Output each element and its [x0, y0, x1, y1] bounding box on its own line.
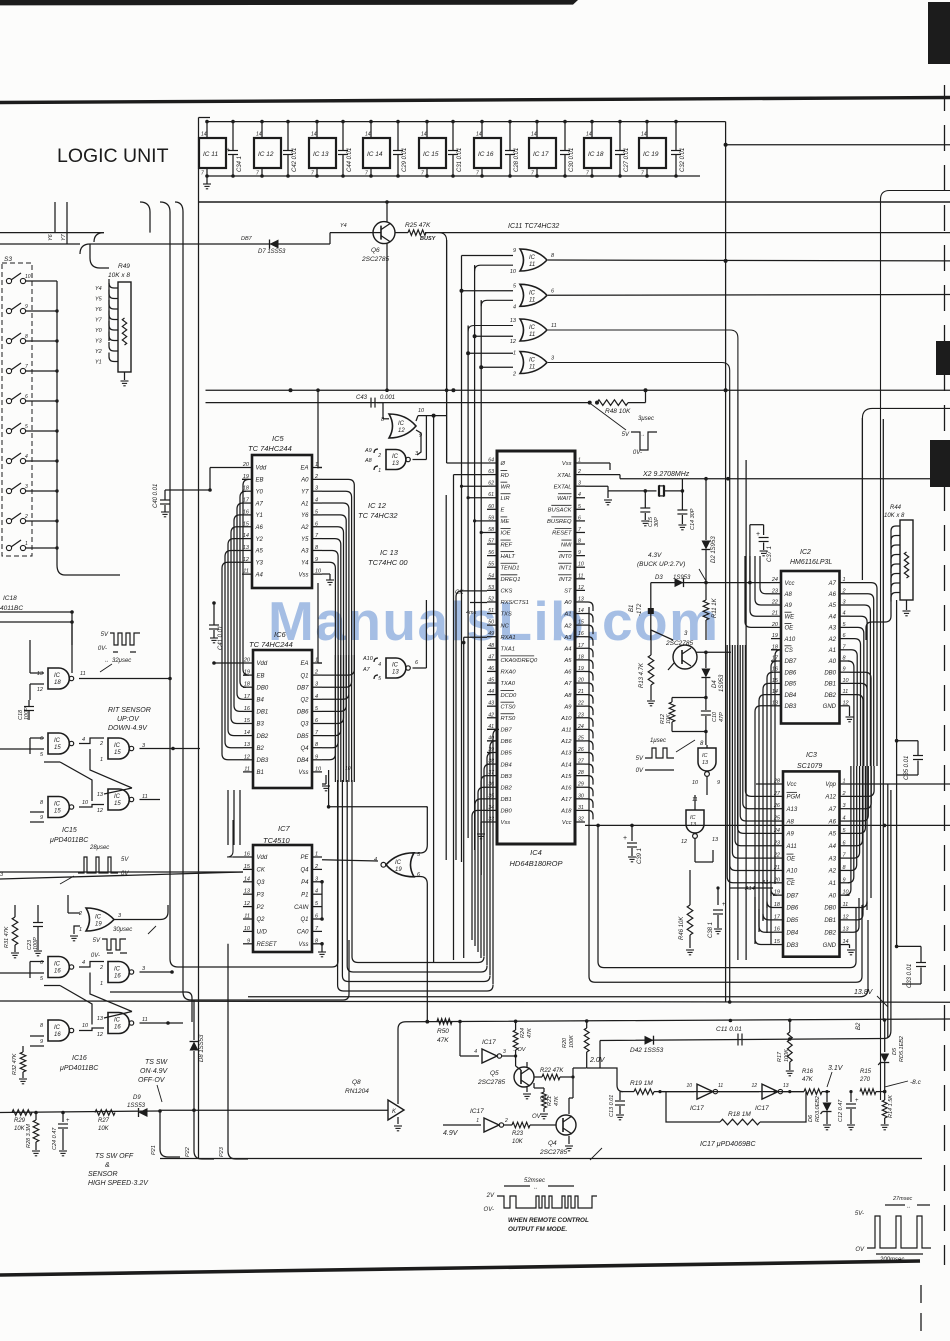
svg-text:30P: 30P	[654, 517, 660, 527]
switch S3-9	[6, 308, 11, 313]
svg-text:PE: PE	[300, 855, 309, 861]
svg-text:13: 13	[690, 822, 697, 828]
svg-text:Y7: Y7	[61, 233, 67, 241]
svg-text:16: 16	[244, 706, 251, 712]
svg-text:2: 2	[314, 864, 318, 870]
svg-text:A12: A12	[824, 795, 836, 801]
svg-text:NMI: NMI	[561, 542, 572, 548]
svg-text:4: 4	[82, 737, 85, 743]
wire IC2 Vcc lead	[770, 582, 772, 584]
wire IC15 out3	[140, 748, 201, 750]
svg-text:47K: 47K	[527, 1028, 533, 1038]
or-gate IC12	[389, 414, 416, 438]
resistor R24 47K	[515, 1021, 517, 1030]
svg-text:C30 0.01: C30 0.01	[569, 148, 575, 172]
svg-text:A8: A8	[563, 693, 572, 699]
svg-text:D2 1S953: D2 1S953	[711, 536, 717, 563]
svg-text:B1: B1	[257, 770, 264, 776]
svg-text:A10: A10	[786, 869, 798, 875]
svg-text:28: 28	[773, 779, 781, 785]
svg-text:R48 10K: R48 10K	[605, 408, 631, 415]
svg-text:OE: OE	[787, 856, 797, 862]
svg-text:A11: A11	[786, 844, 797, 850]
svg-text:XTAL: XTAL	[556, 473, 571, 479]
svg-text:IC: IC	[114, 743, 121, 749]
capacitor C15 30P	[644, 491, 646, 508]
wire busy drop x446	[430, 233, 447, 460]
svg-text:IC: IC	[54, 1025, 61, 1031]
wire IC7 left stubs	[233, 856, 243, 858]
switch S3-8	[6, 338, 11, 343]
svg-text:9: 9	[315, 557, 318, 563]
svg-text:IC: IC	[529, 255, 536, 261]
svg-text:20: 20	[243, 658, 251, 664]
svg-text:IC: IC	[54, 738, 61, 744]
resistor R14 1.5K	[884, 1092, 886, 1100]
svg-text:Vdd: Vdd	[256, 466, 267, 472]
svg-text:11: 11	[529, 297, 535, 303]
svg-text:DB2: DB2	[824, 930, 836, 936]
nand IC18	[48, 668, 69, 689]
diode D4 1S953	[705, 652, 707, 668]
svg-text:13: 13	[843, 927, 850, 933]
svg-text:6: 6	[415, 660, 419, 666]
svg-text:A14: A14	[761, 880, 772, 886]
svg-text:Q1: Q1	[300, 917, 308, 923]
svg-text:IC 18: IC 18	[588, 151, 604, 158]
capacitor C38 1	[717, 888, 719, 905]
svg-text:A3: A3	[828, 856, 837, 862]
svg-text:CA0: CA0	[297, 930, 309, 936]
svg-text:0V: 0V	[636, 768, 644, 774]
svg-text:DB2: DB2	[257, 734, 269, 740]
svg-text:2: 2	[78, 911, 82, 917]
svg-text:53: 53	[488, 585, 494, 591]
svg-text:IC5: IC5	[272, 434, 285, 443]
svg-text:55: 55	[488, 562, 494, 568]
svg-text:26: 26	[773, 803, 781, 809]
svg-text:11: 11	[142, 1017, 148, 1023]
svg-text:B2: B2	[257, 746, 265, 752]
svg-text:1: 1	[513, 351, 516, 357]
top horizontal rule	[0, 98, 950, 103]
svg-text:IC: IC	[54, 962, 61, 968]
nand IC15 c	[48, 797, 69, 818]
wire rail y190 corner right	[881, 191, 950, 1101]
diode D3 1S953	[675, 578, 684, 587]
wire IC4 pin58 bus	[481, 532, 487, 534]
nand IC13 lower	[386, 658, 406, 678]
svg-text:IC 14: IC 14	[367, 151, 383, 158]
svg-text:TC 74HC244: TC 74HC244	[249, 640, 293, 649]
svg-text:+: +	[855, 1098, 859, 1104]
svg-text:10: 10	[692, 780, 699, 786]
wire rail y144 right	[726, 144, 950, 146]
IC4 HD64B180ROP	[497, 451, 575, 844]
svg-text:C13 0.01: C13 0.01	[609, 1095, 615, 1117]
svg-text:7: 7	[476, 171, 479, 177]
or-gate IC11 unit 1	[520, 249, 547, 271]
capacitor C27	[619, 122, 621, 150]
svg-text:10K x 8: 10K x 8	[884, 513, 905, 519]
svg-text:TC 74HC32: TC 74HC32	[358, 511, 398, 520]
svg-text:D42 1SS53: D42 1SS53	[630, 1047, 664, 1054]
svg-text:14: 14	[641, 132, 647, 138]
svg-text:R13 4.7K: R13 4.7K	[639, 662, 645, 688]
wire db loop lines	[352, 780, 484, 963]
svg-text:3: 3	[503, 1049, 506, 1055]
svg-text:16: 16	[578, 631, 584, 637]
svg-text:C29 0.01: C29 0.01	[402, 148, 408, 172]
svg-text:1: 1	[578, 458, 581, 464]
svg-text:R27: R27	[98, 1118, 110, 1124]
svg-text:A2: A2	[828, 869, 837, 875]
svg-text:RD3.0EB2: RD3.0EB2	[815, 1096, 821, 1122]
svg-text:12: 12	[843, 914, 849, 920]
svg-text:IC: IC	[702, 753, 708, 759]
nand IC13 top	[386, 450, 406, 470]
svg-text:19: 19	[578, 666, 584, 672]
svg-text:INT1: INT1	[559, 565, 572, 571]
svg-text:DB5: DB5	[501, 751, 513, 757]
svg-text:IC: IC	[398, 421, 405, 427]
svg-text:6: 6	[40, 736, 44, 742]
svg-text:IC7: IC7	[278, 824, 291, 833]
svg-text:4011BC: 4011BC	[0, 605, 23, 612]
svg-text:31: 31	[578, 805, 584, 811]
svg-text:RXA1: RXA1	[501, 635, 516, 641]
svg-text:P22: P22	[185, 1147, 191, 1157]
svg-text:15: 15	[244, 718, 251, 724]
svg-text:IC: IC	[114, 967, 121, 973]
svg-text:C43: C43	[356, 395, 368, 401]
svg-text:2: 2	[577, 469, 581, 475]
svg-text:59: 59	[488, 515, 494, 521]
IC4 DB bundle arcs	[487, 729, 499, 984]
svg-text:2.0V: 2.0V	[589, 1057, 606, 1064]
svg-text:9: 9	[247, 938, 250, 944]
svg-text:9: 9	[25, 304, 28, 310]
wire x433 vertical	[433, 416, 435, 962]
top-right black corner block	[928, 2, 950, 64]
svg-text:15: 15	[54, 809, 61, 815]
svg-text:A6: A6	[255, 525, 264, 531]
svg-text:IC 15: IC 15	[423, 151, 439, 158]
svg-text:11: 11	[551, 323, 557, 329]
wire node 731	[672, 731, 706, 733]
svg-text:A6: A6	[828, 819, 837, 825]
wire Vss1 lead	[585, 462, 610, 464]
capacitor C30	[564, 122, 566, 150]
svg-text:→: →	[640, 432, 645, 438]
svg-text:A8: A8	[784, 592, 793, 598]
wire IC4 pin62 bus	[462, 485, 488, 487]
svg-text:22: 22	[773, 853, 780, 859]
IC12 box	[254, 138, 281, 168]
svg-text:5: 5	[40, 752, 44, 758]
svg-text:10K: 10K	[666, 714, 672, 724]
svg-text:2SC2785: 2SC2785	[539, 1149, 567, 1156]
svg-text:C34 1: C34 1	[237, 156, 243, 172]
svg-text:12: 12	[243, 557, 249, 563]
svg-text:TC74HC 00: TC74HC 00	[368, 558, 408, 567]
svg-text:20: 20	[771, 622, 779, 628]
svg-text:WAIT: WAIT	[557, 496, 572, 502]
svg-text:A6: A6	[828, 592, 837, 598]
svg-text:7: 7	[311, 171, 314, 177]
svg-text:10: 10	[510, 269, 517, 275]
wire q8 input line	[160, 1109, 388, 1111]
svg-text:DB5: DB5	[785, 682, 797, 688]
svg-text:2: 2	[377, 453, 381, 459]
svg-text:WE: WE	[785, 614, 796, 620]
svg-text:C12 0.47: C12 0.47	[838, 1099, 844, 1122]
wire PE link	[322, 860, 378, 861]
svg-text:14: 14	[578, 608, 584, 614]
IC4 address stubs	[585, 602, 593, 611]
svg-text:Y6: Y6	[95, 307, 103, 313]
svg-text:4: 4	[513, 304, 516, 310]
svg-text:Q5: Q5	[490, 1070, 499, 1077]
svg-text:A9: A9	[784, 603, 793, 609]
svg-text:13: 13	[37, 671, 44, 677]
buckup pointer	[699, 569, 706, 581]
svg-text:4: 4	[474, 1049, 477, 1055]
wire IC19 out	[114, 919, 160, 921]
svg-text:A7: A7	[828, 581, 837, 587]
wire Q6 emitter	[386, 243, 388, 390]
svg-text:Q8: Q8	[352, 1079, 361, 1086]
svg-text:R20: R20	[562, 1037, 568, 1048]
svg-text:DB1: DB1	[257, 710, 269, 716]
svg-text:1SS53: 1SS53	[127, 1103, 146, 1109]
svg-text:28: 28	[577, 770, 584, 776]
svg-text:17: 17	[244, 694, 251, 700]
svg-text:IC: IC	[529, 358, 536, 364]
svg-text:C42 0.01: C42 0.01	[292, 148, 298, 172]
svg-text:A5: A5	[828, 832, 837, 838]
svg-text:HIGH SPEED·3.2V: HIGH SPEED·3.2V	[88, 1180, 149, 1187]
svg-text:62: 62	[488, 481, 494, 487]
svg-text:R11 1K: R11 1K	[712, 597, 718, 618]
bottom horizontal rule	[0, 1261, 920, 1275]
IC3 right arcs	[850, 766, 875, 796]
IC2 GND ground	[849, 706, 851, 716]
svg-text:B2: B2	[856, 1022, 862, 1030]
svg-text:A10: A10	[784, 637, 796, 643]
capacitor C29	[397, 122, 399, 150]
svg-text:4.3V: 4.3V	[648, 552, 662, 559]
wire IC12 out9 loop	[416, 430, 421, 455]
svg-text:IC11 TC74HC32: IC11 TC74HC32	[508, 223, 559, 230]
top supply bus	[207, 121, 726, 123]
svg-text:14: 14	[531, 132, 537, 138]
wire P21	[160, 1113, 180, 1158]
svg-text:5: 5	[578, 504, 581, 510]
IC7 Vss ground	[321, 944, 323, 952]
svg-text:16: 16	[54, 1032, 61, 1038]
svg-text:16: 16	[243, 509, 250, 515]
IC18 box	[584, 138, 611, 168]
wire IC5 Vdd lead	[210, 467, 242, 469]
svg-text:22: 22	[577, 701, 584, 707]
svg-text:IC6: IC6	[274, 630, 287, 639]
IC2 db arcs	[771, 650, 781, 884]
inverter IC17 c	[697, 1084, 713, 1099]
svg-text:4: 4	[378, 662, 381, 668]
svg-text:27: 27	[577, 759, 585, 765]
svg-text:OFF·OV: OFF·OV	[138, 1077, 166, 1084]
svg-text:R18 1M: R18 1M	[728, 1111, 751, 1118]
svg-text:1S953: 1S953	[673, 575, 691, 581]
switch S3-2	[6, 518, 11, 523]
S3 dashed box	[2, 263, 32, 556]
svg-text:A0: A0	[828, 893, 837, 899]
svg-text:100K: 100K	[569, 1035, 575, 1048]
svg-text:A13: A13	[560, 751, 572, 757]
svg-text:10K: 10K	[14, 1126, 26, 1132]
svg-text:3: 3	[578, 481, 581, 487]
svg-text:P3: P3	[257, 892, 265, 898]
svg-text:8: 8	[40, 800, 44, 806]
svg-text:14: 14	[256, 132, 262, 138]
svg-text:1: 1	[843, 577, 846, 583]
svg-text:15: 15	[244, 864, 251, 870]
wire Y-row horizontal	[90, 243, 330, 245]
svg-text:Y7: Y7	[301, 489, 309, 495]
svg-text:Vdd: Vdd	[257, 855, 268, 861]
wire IC6 Vdd lead	[214, 662, 243, 664]
svg-text:Vcc: Vcc	[562, 820, 572, 826]
svg-text:26: 26	[577, 747, 584, 753]
wire rail y408 corner	[862, 408, 950, 560]
wire outline-top-stub	[199, 117, 211, 119]
transistor Q3 2SC2785	[673, 645, 697, 669]
nand IC13 vert lower	[686, 810, 704, 833]
resistor R32 47K	[22, 1046, 24, 1052]
svg-text:Y0: Y0	[95, 328, 103, 334]
IC3 left addr arcs	[745, 645, 773, 796]
svg-text:32: 32	[578, 816, 584, 822]
or-gate IC11 unit 2	[520, 284, 547, 306]
svg-text:TEND1: TEND1	[501, 565, 520, 571]
IC19 box	[639, 138, 666, 168]
svg-text:10K: 10K	[512, 1139, 524, 1145]
svg-text:A15: A15	[560, 774, 572, 780]
capacitor C40 0.01	[164, 490, 166, 500]
svg-text:6: 6	[578, 515, 581, 521]
svg-text:P4: P4	[301, 880, 309, 886]
IC4 Vss ground	[481, 821, 487, 823]
svg-text:9: 9	[40, 1039, 43, 1045]
svg-text:4: 4	[843, 816, 846, 822]
svg-text:IC: IC	[95, 915, 102, 921]
svg-text:IC 12: IC 12	[368, 501, 387, 510]
svg-text:DB6: DB6	[501, 739, 513, 745]
resistor R21 47K	[543, 1088, 545, 1092]
svg-text:WR: WR	[501, 484, 511, 490]
svg-text:7: 7	[25, 364, 28, 370]
svg-text:+: +	[722, 902, 726, 908]
wire IC11-3 in13	[468, 326, 513, 332]
svg-text:EXTAL: EXTAL	[554, 484, 572, 490]
IC2 right db arcs	[850, 672, 872, 898]
svg-text:Vss: Vss	[298, 572, 308, 578]
svg-text:IC 13: IC 13	[313, 151, 329, 158]
transistor Q5 2SC2785	[514, 1067, 534, 1087]
svg-text:CK: CK	[257, 868, 266, 874]
svg-text:42: 42	[488, 712, 494, 718]
svg-text:TXS: TXS	[501, 612, 512, 618]
wire corner bundle	[140, 202, 183, 992]
svg-text:8: 8	[700, 741, 704, 747]
svg-text:OV-: OV-	[484, 1207, 494, 1213]
capacitor C32	[675, 122, 677, 150]
wire IC17a out	[502, 1055, 516, 1057]
or-gate IC19 left	[86, 908, 114, 931]
svg-text:20: 20	[242, 462, 250, 468]
wire IC11-3 in12	[475, 335, 513, 337]
svg-text:0V-: 0V-	[91, 953, 100, 959]
svg-text:13: 13	[97, 1016, 104, 1022]
svg-text:R49: R49	[118, 263, 130, 270]
svg-text:IC18: IC18	[3, 595, 17, 602]
capacitor C24 0.47	[62, 1113, 64, 1123]
wire IC4 Vcc	[585, 824, 950, 826]
svg-text:&: &	[105, 1162, 110, 1169]
nand IC15 a	[48, 733, 69, 754]
svg-text:A4: A4	[563, 646, 571, 652]
wire IC11-3 out	[548, 330, 738, 390]
svg-text:18: 18	[578, 654, 584, 660]
nand IC16 a	[48, 957, 69, 978]
svg-text:A8: A8	[786, 819, 795, 825]
svg-text:16: 16	[114, 1025, 121, 1031]
switch S3-3	[6, 488, 11, 493]
svg-text:IC17: IC17	[482, 1039, 496, 1046]
svg-text:47K: 47K	[802, 1077, 814, 1083]
wire x737 vertical	[737, 390, 739, 960]
wire S3 bus x57	[56, 281, 58, 565]
svg-text:12: 12	[97, 808, 103, 814]
wire R49 top feeds	[90, 244, 109, 268]
battery B1	[650, 583, 652, 608]
svg-text:11: 11	[244, 766, 250, 772]
svg-text:C31 0.01: C31 0.01	[457, 148, 463, 172]
svg-text:Q4: Q4	[300, 746, 309, 752]
svg-text:47K: 47K	[437, 1037, 449, 1044]
svg-text:IC3: IC3	[806, 752, 817, 759]
IC3 left db arcs	[771, 889, 777, 945]
R44 entry arcs	[891, 526, 900, 535]
svg-text:1: 1	[378, 468, 381, 474]
svg-text:D7 1SS53: D7 1SS53	[258, 249, 286, 255]
svg-text:IC: IC	[54, 673, 61, 679]
svg-text:↔: ↔	[533, 1185, 538, 1191]
svg-text:21: 21	[577, 689, 584, 695]
svg-text:S3: S3	[4, 256, 12, 263]
wire out line	[781, 1091, 804, 1093]
svg-text:ON·4.9V: ON·4.9V	[140, 1068, 169, 1075]
wire IC11-4 in2	[481, 366, 513, 368]
svg-text:52: 52	[488, 596, 494, 602]
svg-text:DB0: DB0	[257, 685, 269, 691]
or-gate IC11 unit 4	[520, 352, 547, 374]
svg-text:INT0: INT0	[559, 554, 572, 560]
svg-text:4: 4	[82, 960, 85, 966]
wire x729 vertical	[729, 390, 731, 1002]
nand IC13 vert upper	[698, 748, 716, 771]
